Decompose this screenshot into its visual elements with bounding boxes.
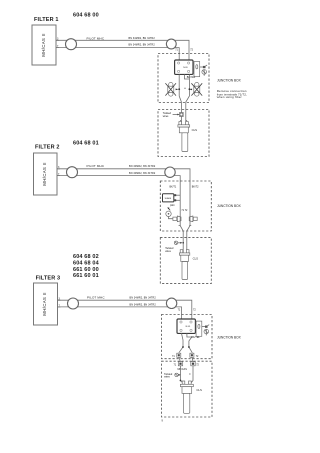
wire pilot lower (filter 1) bbox=[56, 48, 179, 60]
wire pilot lower (filter 2) bbox=[57, 176, 180, 188]
arrow T2 to wire bbox=[178, 242, 181, 244]
U3 pin circle top-right bbox=[190, 321, 192, 323]
control unit MH/CAS II (filter 1) bbox=[32, 25, 56, 65]
pin 7 stub (filter 3) bbox=[58, 306, 61, 308]
U1 pin circle top-right bbox=[188, 62, 190, 64]
U2 pin upper stub bbox=[174, 194, 180, 196]
svg-text:FILTER 1: FILTER 1 bbox=[34, 17, 59, 23]
U3 pin circle bottom-right bbox=[190, 329, 192, 331]
connector X1 (filter 2 left) bbox=[67, 167, 78, 178]
arrow K2 to wire bbox=[189, 89, 192, 91]
svg-text:661 60 01: 661 60 01 bbox=[73, 273, 99, 279]
capacitor C1 (filter 1) bbox=[194, 62, 200, 77]
wire left leg below U1 bbox=[179, 74, 181, 124]
arrow label to T1 bbox=[173, 114, 178, 116]
connector X2 (filter 1 right) bbox=[166, 39, 176, 49]
wire right leg below plugs (filter 2) bbox=[187, 188, 190, 253]
wire tick BK bbox=[184, 87, 186, 89]
removed connection symbol K2 (right X) bbox=[191, 82, 202, 96]
svg-text:MH/CAS II: MH/CAS II bbox=[41, 33, 46, 56]
junction dot T2 on wire bbox=[182, 242, 184, 244]
U3 pin circle top-left bbox=[180, 321, 182, 323]
svg-text:pilot: pilot bbox=[170, 204, 175, 207]
disconnect plug P1 blade bbox=[177, 216, 181, 222]
svg-text:wires: wires bbox=[164, 375, 170, 378]
disconnect plug P2 housing bbox=[193, 217, 197, 220]
svg-text:BN 34MR2, BN 34TR2: BN 34MR2, BN 34TR2 bbox=[129, 172, 156, 175]
terminal 72 lower (filter 3) bbox=[191, 362, 195, 366]
T2 cross mark bbox=[175, 242, 177, 244]
junction dot left bbox=[182, 346, 184, 348]
junction box upper dashed enclosure (filter 2) bbox=[160, 181, 211, 231]
wire U3 bottom pin to right leg bbox=[187, 333, 192, 337]
twisted pair connector T2 (filter 2) bbox=[174, 241, 177, 244]
terminal lug E1 (filter 1) bbox=[202, 70, 207, 75]
wire left leg U3 to terminal 71 bbox=[179, 333, 183, 352]
svg-text:661 60 00: 661 60 00 bbox=[73, 267, 99, 273]
wire terminal 72 upper to lower bbox=[192, 357, 193, 361]
wire U1 bottom pin to right leg bbox=[185, 74, 190, 79]
terminal wing W3 bbox=[202, 326, 205, 328]
svg-text:FILTER 3: FILTER 3 bbox=[36, 276, 61, 282]
disconnect plug P1 housing (left) bbox=[173, 217, 177, 220]
svg-text:MH/CAS II: MH/CAS II bbox=[42, 162, 47, 185]
terminal lug E3 cross bbox=[205, 330, 208, 336]
arrow T3 to wire bbox=[178, 374, 180, 376]
terminal lug E1 cross bbox=[203, 70, 206, 76]
wire pilot lower (filter 3) bbox=[58, 307, 182, 319]
arrow K1 to wire bbox=[176, 89, 179, 91]
svg-text:PILOT MHC: PILOT MHC bbox=[87, 164, 105, 168]
svg-text:BK/YEL: BK/YEL bbox=[191, 336, 200, 339]
wire tick BK right bbox=[186, 120, 187, 122]
svg-text:BN 34MR2, BN 34TR2: BN 34MR2, BN 34TR2 bbox=[130, 297, 157, 300]
svg-text:CLS: CLS bbox=[192, 128, 198, 132]
slave unit U2 (filter 2) bbox=[163, 194, 174, 202]
pin 3 stub (filter 3) bbox=[58, 299, 61, 301]
junction dot right bbox=[188, 346, 190, 348]
twisted pair connector T1 core bbox=[180, 113, 183, 116]
U1 pin circle bottom-left bbox=[178, 70, 180, 72]
terminal lug E3 (filter 3) bbox=[204, 329, 209, 334]
svg-text:BN 34MR2, BN 34TR2: BN 34MR2, BN 34TR2 bbox=[129, 165, 156, 168]
terminal 71 upper (filter 3) bbox=[177, 353, 181, 357]
svg-text:PILOT MHC: PILOT MHC bbox=[87, 37, 105, 41]
svg-text:604 68 01: 604 68 01 bbox=[73, 141, 99, 147]
wire right leg below U1 bbox=[186, 74, 190, 124]
terminal 72 upper (filter 3) bbox=[190, 353, 194, 357]
T3 cross mark bbox=[175, 374, 177, 376]
svg-text:BK/YEL: BK/YEL bbox=[187, 76, 196, 79]
terminal 71 lower (filter 3) bbox=[178, 362, 182, 366]
terminal 71 lower contact bbox=[179, 363, 181, 365]
svg-text:PILOT MHC: PILOT MHC bbox=[87, 295, 105, 299]
junction tick right (filter 2) bbox=[189, 224, 191, 226]
filter unit U1 (filter 1) bbox=[175, 60, 193, 74]
ground lug E2 center bbox=[168, 213, 170, 215]
junction box lower dashed enclosure (filter 3) bbox=[162, 361, 213, 417]
capacitor C3 core bbox=[198, 324, 200, 328]
svg-text:BN 34MR2, BN 34TR2: BN 34MR2, BN 34TR2 bbox=[130, 304, 157, 307]
svg-text:604 68 04: 604 68 04 bbox=[73, 261, 100, 267]
filter unit U3 (filter 3) bbox=[177, 319, 195, 333]
pin 7 stub (filter 1) bbox=[56, 47, 59, 49]
capacitor C1 core bbox=[196, 65, 198, 69]
U1 pin circle bottom-right bbox=[188, 70, 190, 72]
wire left leg below terminals (filter 3) bbox=[181, 366, 185, 384]
twisted pair connector T1 (filter 1) bbox=[180, 112, 184, 116]
spark plug CLS (filter 2) bbox=[179, 250, 189, 280]
junction dot right wire bbox=[189, 88, 191, 90]
U3 pin circle bottom-left bbox=[180, 329, 182, 331]
ground lug E2 (filter 2) bbox=[166, 211, 171, 216]
disconnect plug P2 blade (right) bbox=[189, 216, 193, 222]
svg-text:JUNCTION BOX: JUNCTION BOX bbox=[217, 78, 242, 82]
connector X1 (filter 1 left) bbox=[66, 39, 77, 50]
spark plug CLS (filter 3) bbox=[180, 381, 193, 413]
junction box upper dashed enclosure (filter 3) bbox=[162, 315, 213, 359]
svg-text:BN 34MR2, BN 34TR2: BN 34MR2, BN 34TR2 bbox=[129, 37, 156, 40]
twisted pair connector T3 (filter 3) bbox=[175, 373, 178, 376]
pointer to ground lug bbox=[168, 208, 170, 211]
connector X1 (filter 3 left) bbox=[68, 298, 79, 309]
connector X2 (filter 3 right) bbox=[166, 298, 176, 308]
junction dot left wire bbox=[178, 88, 180, 90]
svg-text:MH/CAS: MH/CAS bbox=[178, 368, 188, 371]
wire tick BK bbox=[189, 373, 191, 375]
svg-text:604 68 00: 604 68 00 bbox=[73, 13, 99, 19]
connector X2 (filter 2 right) bbox=[165, 167, 175, 177]
wire pilot upper (filter 2) bbox=[57, 169, 190, 188]
svg-text:BK/T1: BK/T1 bbox=[170, 186, 177, 189]
wire terminal 71 upper to lower bbox=[179, 357, 181, 361]
U1 pin circle top-left bbox=[178, 62, 180, 64]
svg-text:JUNCTION BOX: JUNCTION BOX bbox=[217, 336, 242, 340]
terminal 71 upper contact bbox=[178, 354, 180, 356]
U2 pin lower stub bbox=[174, 199, 180, 201]
junction dot lower left bbox=[180, 380, 182, 382]
terminal 72 lower contact bbox=[192, 363, 194, 365]
svg-text:JUNCTION BOX: JUNCTION BOX bbox=[217, 204, 242, 208]
removed connection symbol K1 (left X) bbox=[165, 82, 176, 96]
wire pilot upper (filter 3) bbox=[58, 300, 192, 319]
svg-text:CLS: CLS bbox=[193, 256, 199, 260]
wire tick BK left bbox=[180, 120, 181, 122]
svg-text:BN 34MR2, BN 34TR2: BN 34MR2, BN 34TR2 bbox=[129, 44, 156, 47]
control unit MH/CAS II (filter 3) bbox=[34, 283, 58, 325]
U2 pin upper pad bbox=[174, 194, 176, 196]
svg-text:604 68 02: 604 68 02 bbox=[73, 254, 99, 260]
U2 pin lower pad bbox=[174, 199, 176, 201]
svg-text:wires: wires bbox=[163, 115, 169, 118]
junction tick left (filter 2) bbox=[179, 224, 181, 226]
spark plug CLS (filter 1) bbox=[178, 122, 190, 152]
junction box upper dashed enclosure (filter 1) bbox=[158, 54, 209, 103]
svg-text:CLS: CLS bbox=[196, 388, 202, 392]
wire pilot upper (filter 1) bbox=[56, 40, 189, 60]
terminal wing W1 bbox=[200, 66, 203, 68]
svg-text:when using filter: when using filter bbox=[217, 95, 242, 99]
pin 7 stub (filter 2) bbox=[57, 175, 60, 177]
pin 3 stub (filter 2) bbox=[57, 168, 60, 170]
junction box lower dashed enclosure (filter 1) bbox=[158, 110, 209, 157]
terminal 72 upper contact bbox=[191, 354, 193, 356]
control unit MH/CAS II (filter 2) bbox=[34, 153, 58, 195]
svg-text:wires: wires bbox=[165, 250, 171, 253]
wire right leg below terminals (filter 3) bbox=[190, 366, 193, 384]
wire left leg below plugs (filter 2) bbox=[180, 188, 183, 253]
capacitor C3 (filter 3) bbox=[196, 321, 202, 336]
svg-text:BK/T2: BK/T2 bbox=[192, 186, 199, 189]
svg-text:FILTER 2: FILTER 2 bbox=[35, 145, 60, 151]
svg-text:71 72: 71 72 bbox=[181, 209, 188, 212]
svg-text:SLAVE: SLAVE bbox=[165, 197, 172, 200]
wire E2 to plug bbox=[169, 217, 173, 219]
svg-text:MH/CAS II: MH/CAS II bbox=[42, 292, 47, 315]
wire right leg U3 to terminal 72 bbox=[189, 337, 192, 353]
pin 3 stub (filter 1) bbox=[56, 39, 59, 41]
junction box lower dashed enclosure (filter 2) bbox=[160, 238, 211, 284]
